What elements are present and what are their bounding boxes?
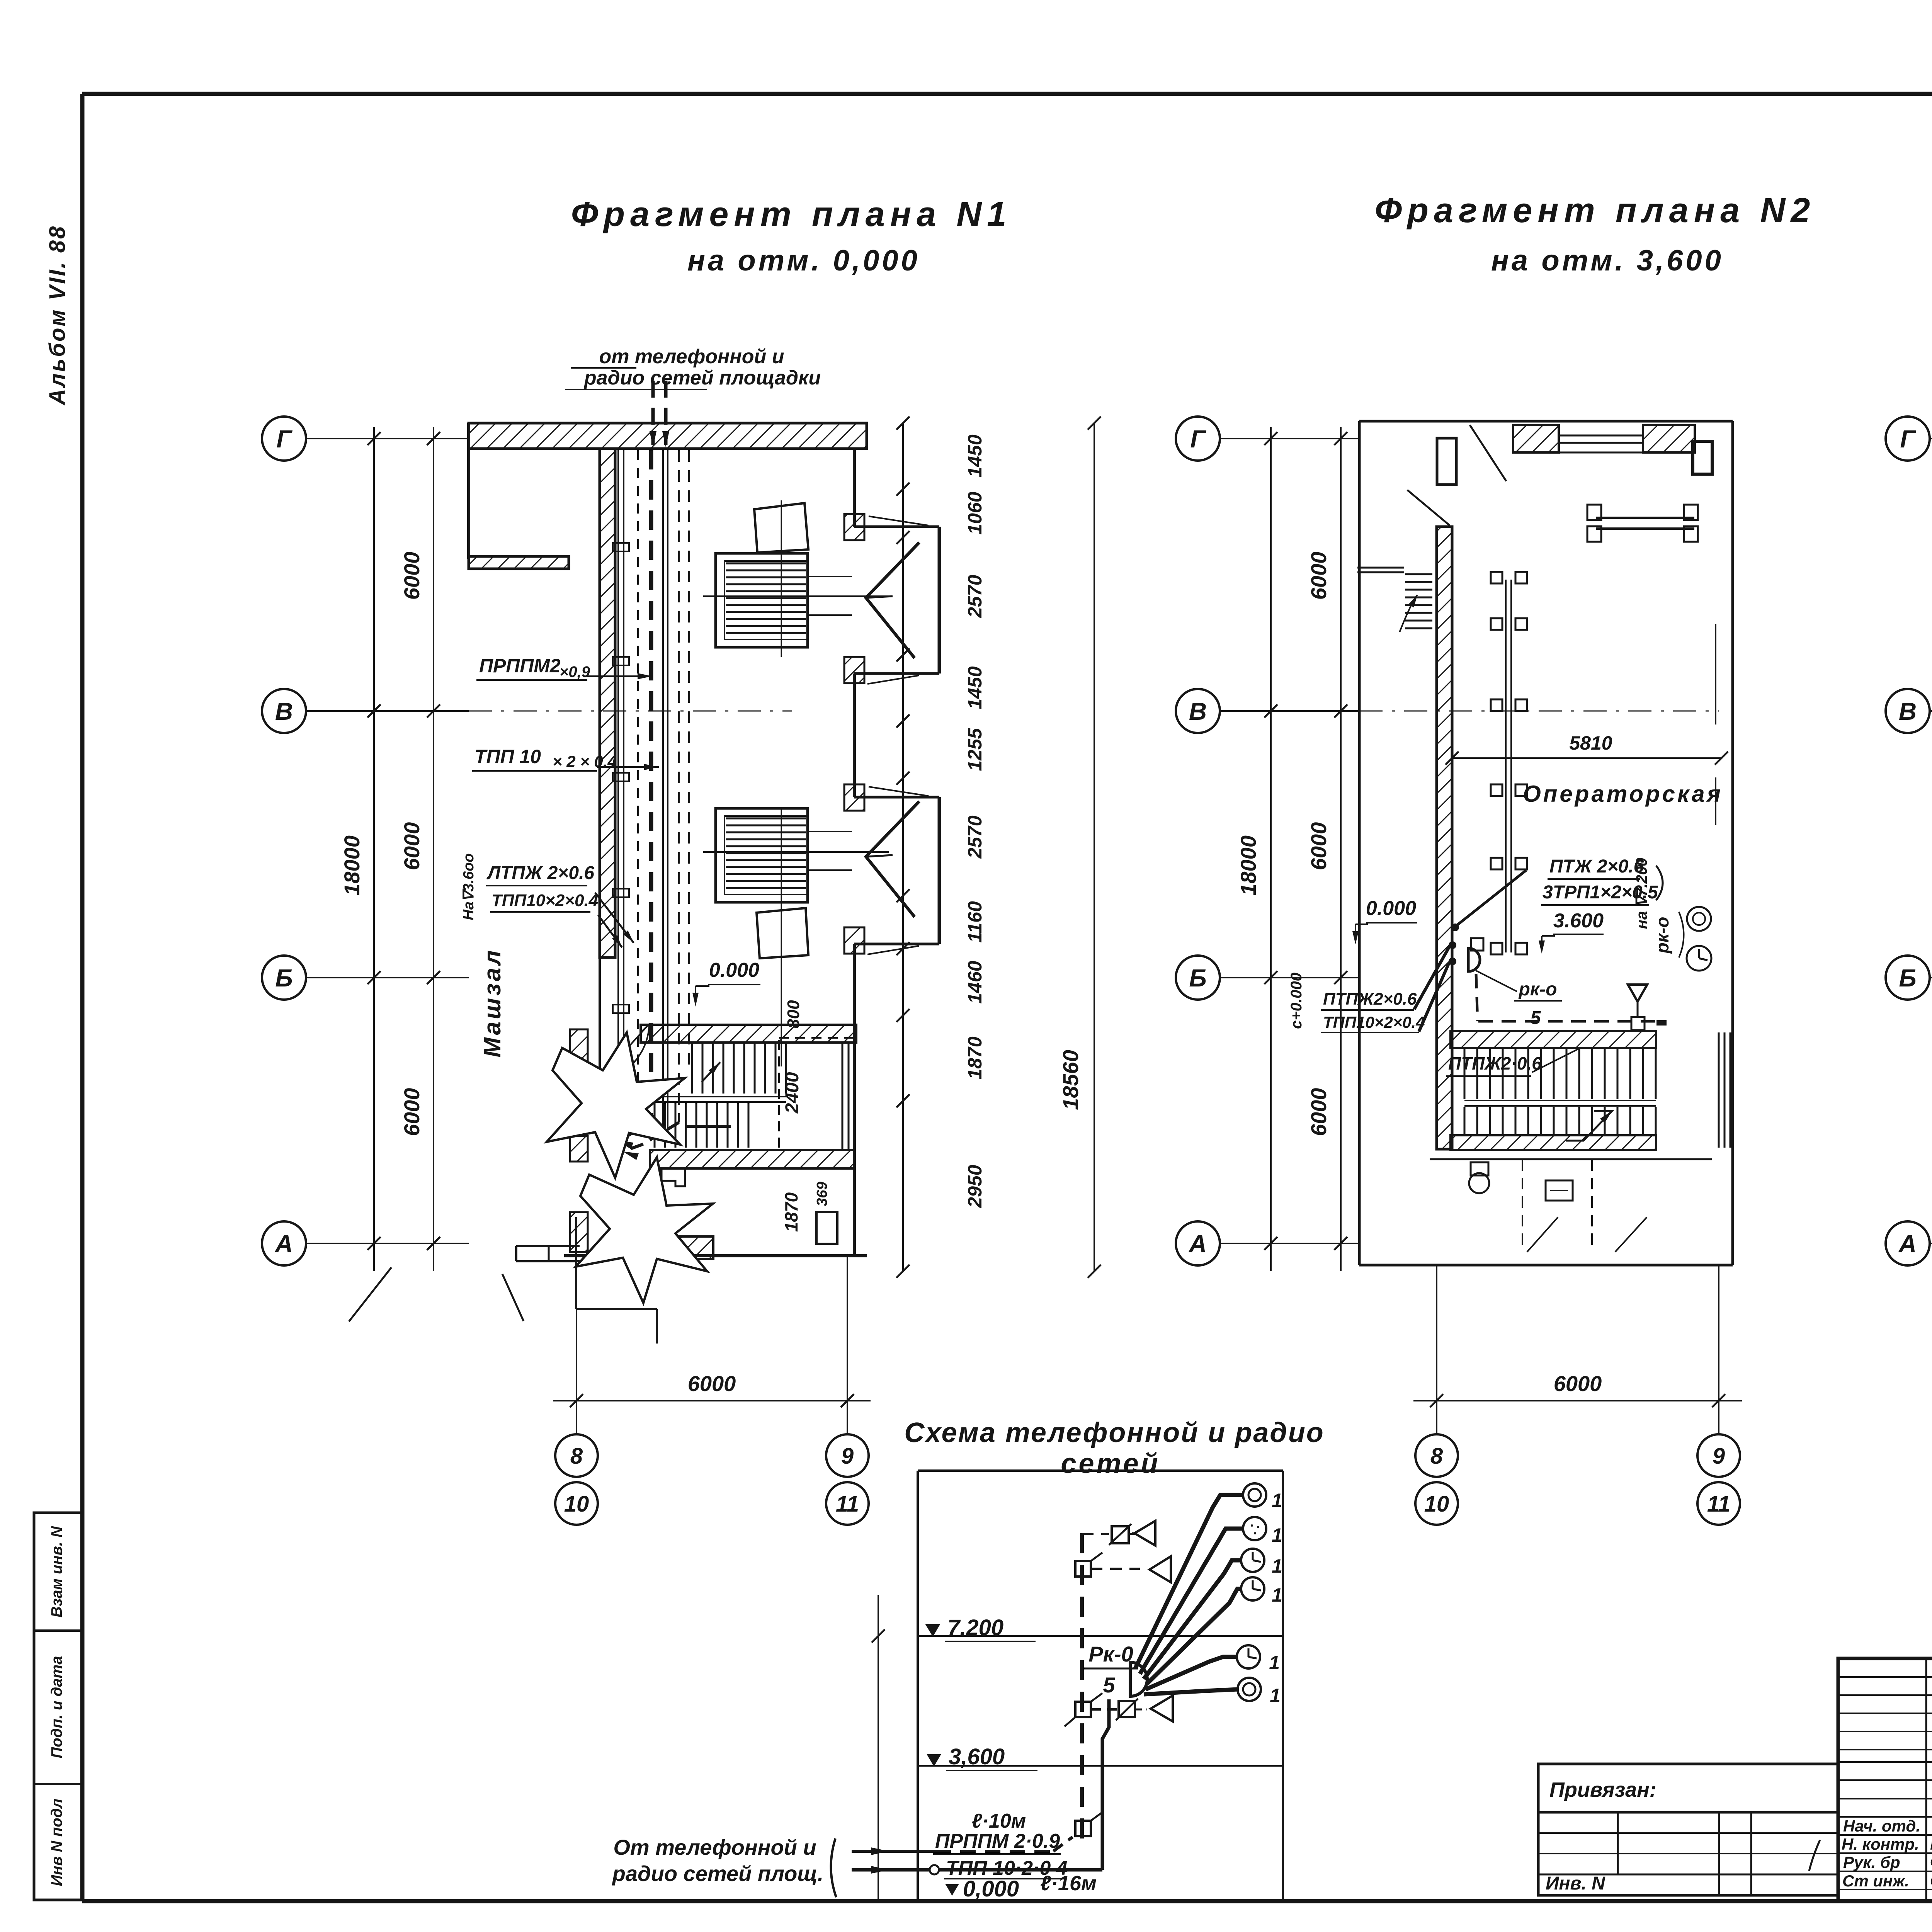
svg-text:на ∇7.200: на ∇7.200 [1633,858,1650,929]
wire 2 [1140,1529,1243,1674]
svg-text:В: В [1899,697,1917,725]
machine B frame [716,808,808,902]
svg-text:2570: 2570 [964,575,986,618]
svg-text:Машзал: Машзал [479,948,506,1057]
svg-text:Привязан:: Привязан: [1549,1778,1656,1801]
incoming cables from site [650,381,669,447]
plan2 entry door [1437,425,1506,485]
plan1 door arc stair [597,1024,649,1082]
junction box 2 [1065,1693,1102,1726]
outlet 2 [1243,1517,1282,1546]
svg-text:1255: 1255 [964,728,986,771]
dim line 6000 chain [1334,427,1347,1271]
privyazan table [1538,1812,1838,1895]
svg-text:8: 8 [1430,1444,1443,1469]
cable dashed runs [638,450,689,1140]
svg-text:1: 1 [1272,1584,1282,1606]
svg-text:1: 1 [1272,1555,1282,1577]
clock 5 [1237,1645,1280,1673]
dim line 18000 [367,427,381,1271]
plan2 cable entry [1414,870,1526,1032]
axis circle 10 [555,1482,598,1525]
radio outlet 1 [1243,1483,1282,1511]
machine A comb [726,563,806,633]
plan2 corner column [1693,441,1712,474]
outlet 6 [1238,1678,1281,1706]
plan1 stair top band hatched [641,1025,856,1043]
dashed bottom run [852,1837,1073,1855]
svg-text:10: 10 [1424,1492,1449,1517]
plan2 stair arrow Z [1566,1111,1612,1141]
leader arrows to riser [595,893,634,947]
svg-text:1870: 1870 [964,1036,986,1079]
machine A shaft [703,577,889,615]
svg-text:Подп. и дата: Подп. и дата [48,1656,65,1759]
plan2 stair bottom band hatched [1451,1135,1656,1150]
title block outer [1838,1658,1932,1901]
axis line В extension [469,711,792,712]
plan1 overall dim 18560 [1088,417,1101,1278]
plan1 stair stringer [655,1097,786,1102]
svg-text:Нач. отд.: Нач. отд. [1843,1817,1920,1835]
dim line 6000 bottom [553,1394,871,1407]
plan1 porch [349,1217,657,1344]
label РК-О 5 schematic [1084,1642,1138,1697]
axis circle 11 [826,1482,869,1525]
axis circle Г [262,417,469,461]
machine A axis line [781,500,782,657]
axis circle Б [1176,956,1359,1000]
svg-text:6000: 6000 [1306,822,1331,871]
svg-text:ТПП10×2×0.4: ТПП10×2×0.4 [492,891,598,910]
plan2 equipment H [1587,505,1698,542]
svg-text:Альбом VII. 88: Альбом VII. 88 [45,225,70,406]
svg-text:Столярова: Столярова [1930,1871,1932,1890]
plan2 cable labels [1321,990,1425,1032]
plan1 interior wall hatched [600,449,615,1144]
label 3.600 plan2 [1539,910,1604,954]
wire 5 [1146,1657,1237,1689]
svg-text:1: 1 [1272,1524,1282,1546]
axis circle 9 [826,1434,869,1477]
break star 1 [547,1032,685,1178]
svg-text:Б: Б [1189,964,1206,992]
svg-text:1450: 1450 [964,434,986,477]
svg-text:ТПП 10: ТПП 10 [474,746,541,767]
svg-text:А: А [1188,1230,1207,1258]
axis circle А [1176,1221,1359,1265]
svg-text:ЛТПЖ 2×0.6: ЛТПЖ 2×0.6 [486,863,594,883]
riser dashed [1080,1533,1084,1839]
axis line В extension [1359,711,1719,712]
machine A motor [754,503,808,553]
dim line 6000 bottom [1413,1394,1742,1407]
label ПРППМ 2.0.9 [933,1830,1061,1854]
plan1 bay 2 [844,784,939,954]
svg-text:6000: 6000 [400,552,424,600]
label ТПП 10.2.0.4 [944,1857,1068,1879]
svg-text:Г: Г [276,425,293,453]
svg-text:1460: 1460 [964,961,986,1003]
svg-text:5810: 5810 [1569,732,1612,754]
svg-text:7.200: 7.200 [947,1615,1003,1640]
axis circle Г [1886,417,1932,461]
top speaker [1132,1521,1155,1546]
svg-text:Г: Г [1900,425,1916,453]
svg-text:1870: 1870 [781,1192,801,1232]
svg-text:0,000: 0,000 [963,1876,1019,1901]
junction box 1 [1075,1553,1102,1577]
level line 3.600 [918,1765,1283,1767]
axis extension lines 8 9 [1437,1265,1719,1434]
svg-text:6000: 6000 [400,1088,424,1136]
svg-text:На∇3.6оо: На∇3.6оо [461,853,477,920]
svg-text:радио сетей площадки: радио сетей площадки [583,367,821,389]
svg-text:ПРППМ 2·0.9: ПРППМ 2·0.9 [935,1830,1060,1852]
level label 3.600 [928,1744,1037,1770]
svg-text:0.000: 0.000 [709,959,759,981]
level label 0.000 [947,1876,1043,1902]
plan1 jog step [662,1168,685,1186]
svg-text:800: 800 [784,1000,803,1029]
clock 4 [1241,1577,1282,1606]
plan2 speaker [1628,985,1667,1030]
svg-text:ℓ·10м: ℓ·10м [972,1810,1026,1832]
machine B motor [757,908,808,958]
axis circle Б [262,956,469,1000]
plan1 top wall hatched [469,423,867,449]
axis extension lines 8 9 [577,1256,847,1434]
label рк-о rotated plan2 [1652,912,1684,957]
dim 5810 [1446,752,1728,765]
svg-text:5: 5 [1531,1008,1541,1028]
axis circle Г [1176,417,1359,461]
svg-text:18560: 18560 [1058,1050,1083,1110]
machine B axis line [781,810,782,1066]
wire 1 [1135,1495,1242,1668]
title block names [1842,1816,1932,1890]
svg-text:на отм. 3,600: на отм. 3,600 [1491,244,1724,277]
brace and на 7.200 [1633,858,1663,929]
plan1 bottom wall [564,1254,867,1257]
svg-text:Взам инв. N: Взам инв. N [48,1526,65,1617]
plan2 stair top band hatched [1451,1031,1656,1048]
svg-text:Н. контр.: Н. контр. [1842,1835,1919,1853]
label ЛТПЖ 2x0.6 [486,863,594,886]
axis circle В [1176,689,1359,733]
machine A funnel [866,543,919,658]
wire 6 [1144,1689,1238,1694]
wire 4 [1147,1589,1241,1684]
level line 7.200 [918,1635,1283,1637]
svg-text:18000: 18000 [340,835,364,896]
label from telephone nets line2 [565,367,821,389]
svg-text:0.000: 0.000 [1366,897,1416,920]
break star 2 [576,1157,713,1303]
plan1 bottom wall stub hatched [652,1236,713,1259]
cable ladder rails [613,450,629,1140]
axis circle Б [1886,956,1932,1000]
svg-text:сетей: сетей [1061,1448,1160,1479]
svg-text:Фрагмент плана N2: Фрагмент плана N2 [1375,191,1816,230]
axis circle А [1886,1221,1932,1265]
svg-text:9: 9 [841,1444,854,1469]
left stamp box [34,1513,82,1900]
axis circle 8 [1415,1434,1458,1477]
svg-text:3.600: 3.600 [1553,910,1604,932]
svg-text:на отм. 0,000: на отм. 0,000 [687,244,920,277]
svg-text:А: А [274,1230,293,1258]
plan2 interior wall hatched [1437,527,1452,1149]
machine A frame [716,553,808,647]
plan1 right wall lower [853,944,856,1256]
axis circle 9 [1697,1434,1740,1477]
svg-text:1160: 1160 [964,901,986,943]
svg-text:3,600: 3,600 [949,1744,1005,1769]
svg-text:369: 369 [814,1182,830,1206]
svg-text:Г: Г [1190,425,1206,453]
svg-text:В: В [1189,697,1207,725]
svg-text:от телефонной и: от телефонной и [599,345,784,368]
plan2 small stair [1357,568,1432,632]
plan1 stair lower flight [655,1103,748,1148]
svg-text:11: 11 [836,1492,859,1517]
axis circle А [262,1221,469,1265]
label 0.000 plan2 [1352,897,1417,944]
axis circle В [262,689,469,733]
title block left grid [1838,1658,1932,1901]
label ПТЖ 2x0.6 [1548,856,1644,879]
plan2 rk circles [1687,907,1711,971]
label ПТПЖ2 0.6 stairs [1446,1048,1580,1076]
axis circle 10 [1415,1482,1458,1525]
plan2 top wall hatched [1513,425,1695,452]
label 3ТРП1x2x0.5 [1541,882,1658,905]
plan2 columns and rack [1491,572,1527,954]
branch 2 speaker [1091,1556,1171,1582]
svg-text:2400: 2400 [782,1072,803,1114]
svg-text:ПТЖ 2×0.6: ПТЖ 2×0.6 [1549,856,1644,877]
schematic box [918,1471,1283,1901]
svg-text:ПТПЖ2·0,6: ПТПЖ2·0,6 [1448,1053,1542,1073]
plan1 right wall upper [853,449,856,527]
plan1 dimension chains [0,0,0,0]
plan1 lower band hatched [650,1150,854,1168]
plan1 left lower wall hatches [570,1029,588,1252]
plan2 wc room [1430,1159,1712,1252]
svg-text:×0,9: ×0,9 [560,663,590,680]
plan2 stair treads [1464,1048,1656,1136]
top branch attenuator [1082,1524,1142,1545]
axis circle 11 [1697,1482,1740,1525]
machine B funnel [866,801,919,917]
svg-text:5: 5 [1103,1673,1115,1697]
svg-text:Рк-0: Рк-0 [1088,1642,1133,1666]
clock 3 [1241,1549,1282,1577]
svg-text:10: 10 [564,1492,589,1517]
label from telephone nets line1 [571,345,784,368]
solid drop line [852,1699,1109,1874]
svg-text:рк-о: рк-о [1652,917,1672,954]
svg-text:Фрагмент плана N1: Фрагмент плана N1 [571,195,1012,234]
svg-text:9: 9 [1713,1444,1725,1469]
svg-text:ПРППМ2: ПРППМ2 [479,655,561,677]
label РК-О 5 [1476,971,1562,1028]
privyazan box [1538,1764,1838,1812]
svg-text:рк-о: рк-о [1518,979,1557,1000]
wire 3 [1144,1560,1241,1679]
label ТПП 10x2x0.4 [472,746,659,771]
svg-text:ТПП10×2×0.4: ТПП10×2×0.4 [1323,1013,1425,1031]
machine B comb [726,818,806,888]
svg-text:Б: Б [1899,964,1916,992]
svg-text:Рук. бр: Рук. бр [1843,1853,1900,1871]
svg-text:6000: 6000 [1554,1371,1602,1396]
dim line 18000 [1264,427,1277,1271]
svg-text:6000: 6000 [1306,1088,1331,1136]
label от телефонной bottom [612,1835,836,1897]
schematic left ref line [872,1595,885,1900]
dim line 6000 chain [427,427,440,1271]
svg-text:От телефонной и: От телефонной и [613,1835,816,1859]
svg-text:11: 11 [1707,1492,1730,1517]
level label 7.200 [927,1615,1036,1641]
plan1 lower room window [816,1212,837,1244]
svg-text:ПТПЖ2×0.6: ПТПЖ2×0.6 [1323,990,1417,1009]
plan2 dashed route [1476,974,1658,1021]
svg-text:2570: 2570 [964,815,986,859]
svg-text:Позднякова: Позднякова [1930,1835,1932,1854]
plan1 stair arrow [702,1062,720,1082]
plan1 bay 1 [844,514,939,684]
svg-text:Инв N подл: Инв N подл [48,1799,65,1886]
svg-text:6000: 6000 [688,1371,736,1396]
svg-text:В: В [275,697,293,725]
plan1 right dim chain [896,417,910,1278]
svg-text:1: 1 [1272,1490,1282,1511]
plan2 outer walls [1359,421,1733,1265]
svg-text:ТПП 10·2·0 4: ТПП 10·2·0 4 [946,1857,1068,1879]
svg-text:1060: 1060 [964,492,986,534]
cable bottom hooks [617,1117,679,1160]
svg-text:1450: 1450 [964,666,986,709]
svg-text:18000: 18000 [1236,835,1260,896]
label ТПП10 2x0.4 [490,891,598,912]
svg-text:Ст инж.: Ст инж. [1842,1872,1909,1890]
svg-text:Операторская: Операторская [1523,781,1723,807]
svg-text:1: 1 [1269,1652,1280,1673]
signature slash [1809,1840,1820,1871]
svg-text:Инв. N: Инв. N [1546,1873,1605,1894]
axis circle В [1886,689,1932,733]
distributor half circle [1130,1662,1147,1696]
plan1 left wall [467,423,470,559]
svg-text:радио сетей площ.: радио сетей площ. [612,1861,824,1886]
svg-text:Схема телефонной и радио: Схема телефонной и радио [904,1417,1324,1448]
svg-text:2950: 2950 [964,1165,986,1208]
plan2 interior door [1407,490,1450,526]
mid attenuator branch [1091,1696,1173,1721]
plan1 stair upper flight [692,1038,855,1149]
machine B shaft [703,832,889,870]
svg-text:6000: 6000 [1306,552,1331,600]
plan1 window shaft [842,1042,849,1150]
junction box 3 [1075,1812,1102,1836]
svg-text:Филицкая: Филицкая [1930,1853,1932,1872]
plan2 right window shading [1716,624,1730,1148]
svg-text:8: 8 [570,1444,583,1469]
svg-text:А: А [1898,1230,1917,1258]
axis circle 8 [555,1434,598,1477]
label ПРППМ [476,655,652,680]
svg-text:1: 1 [1270,1685,1281,1706]
plan1 left stub wall hatched [469,556,569,569]
svg-text:с+0.000: с+0.000 [1288,973,1305,1029]
svg-text:Б: Б [275,964,293,992]
plan1 right wall mid [853,673,856,797]
svg-text:6000: 6000 [400,822,424,871]
label 0.000 [692,959,760,1007]
